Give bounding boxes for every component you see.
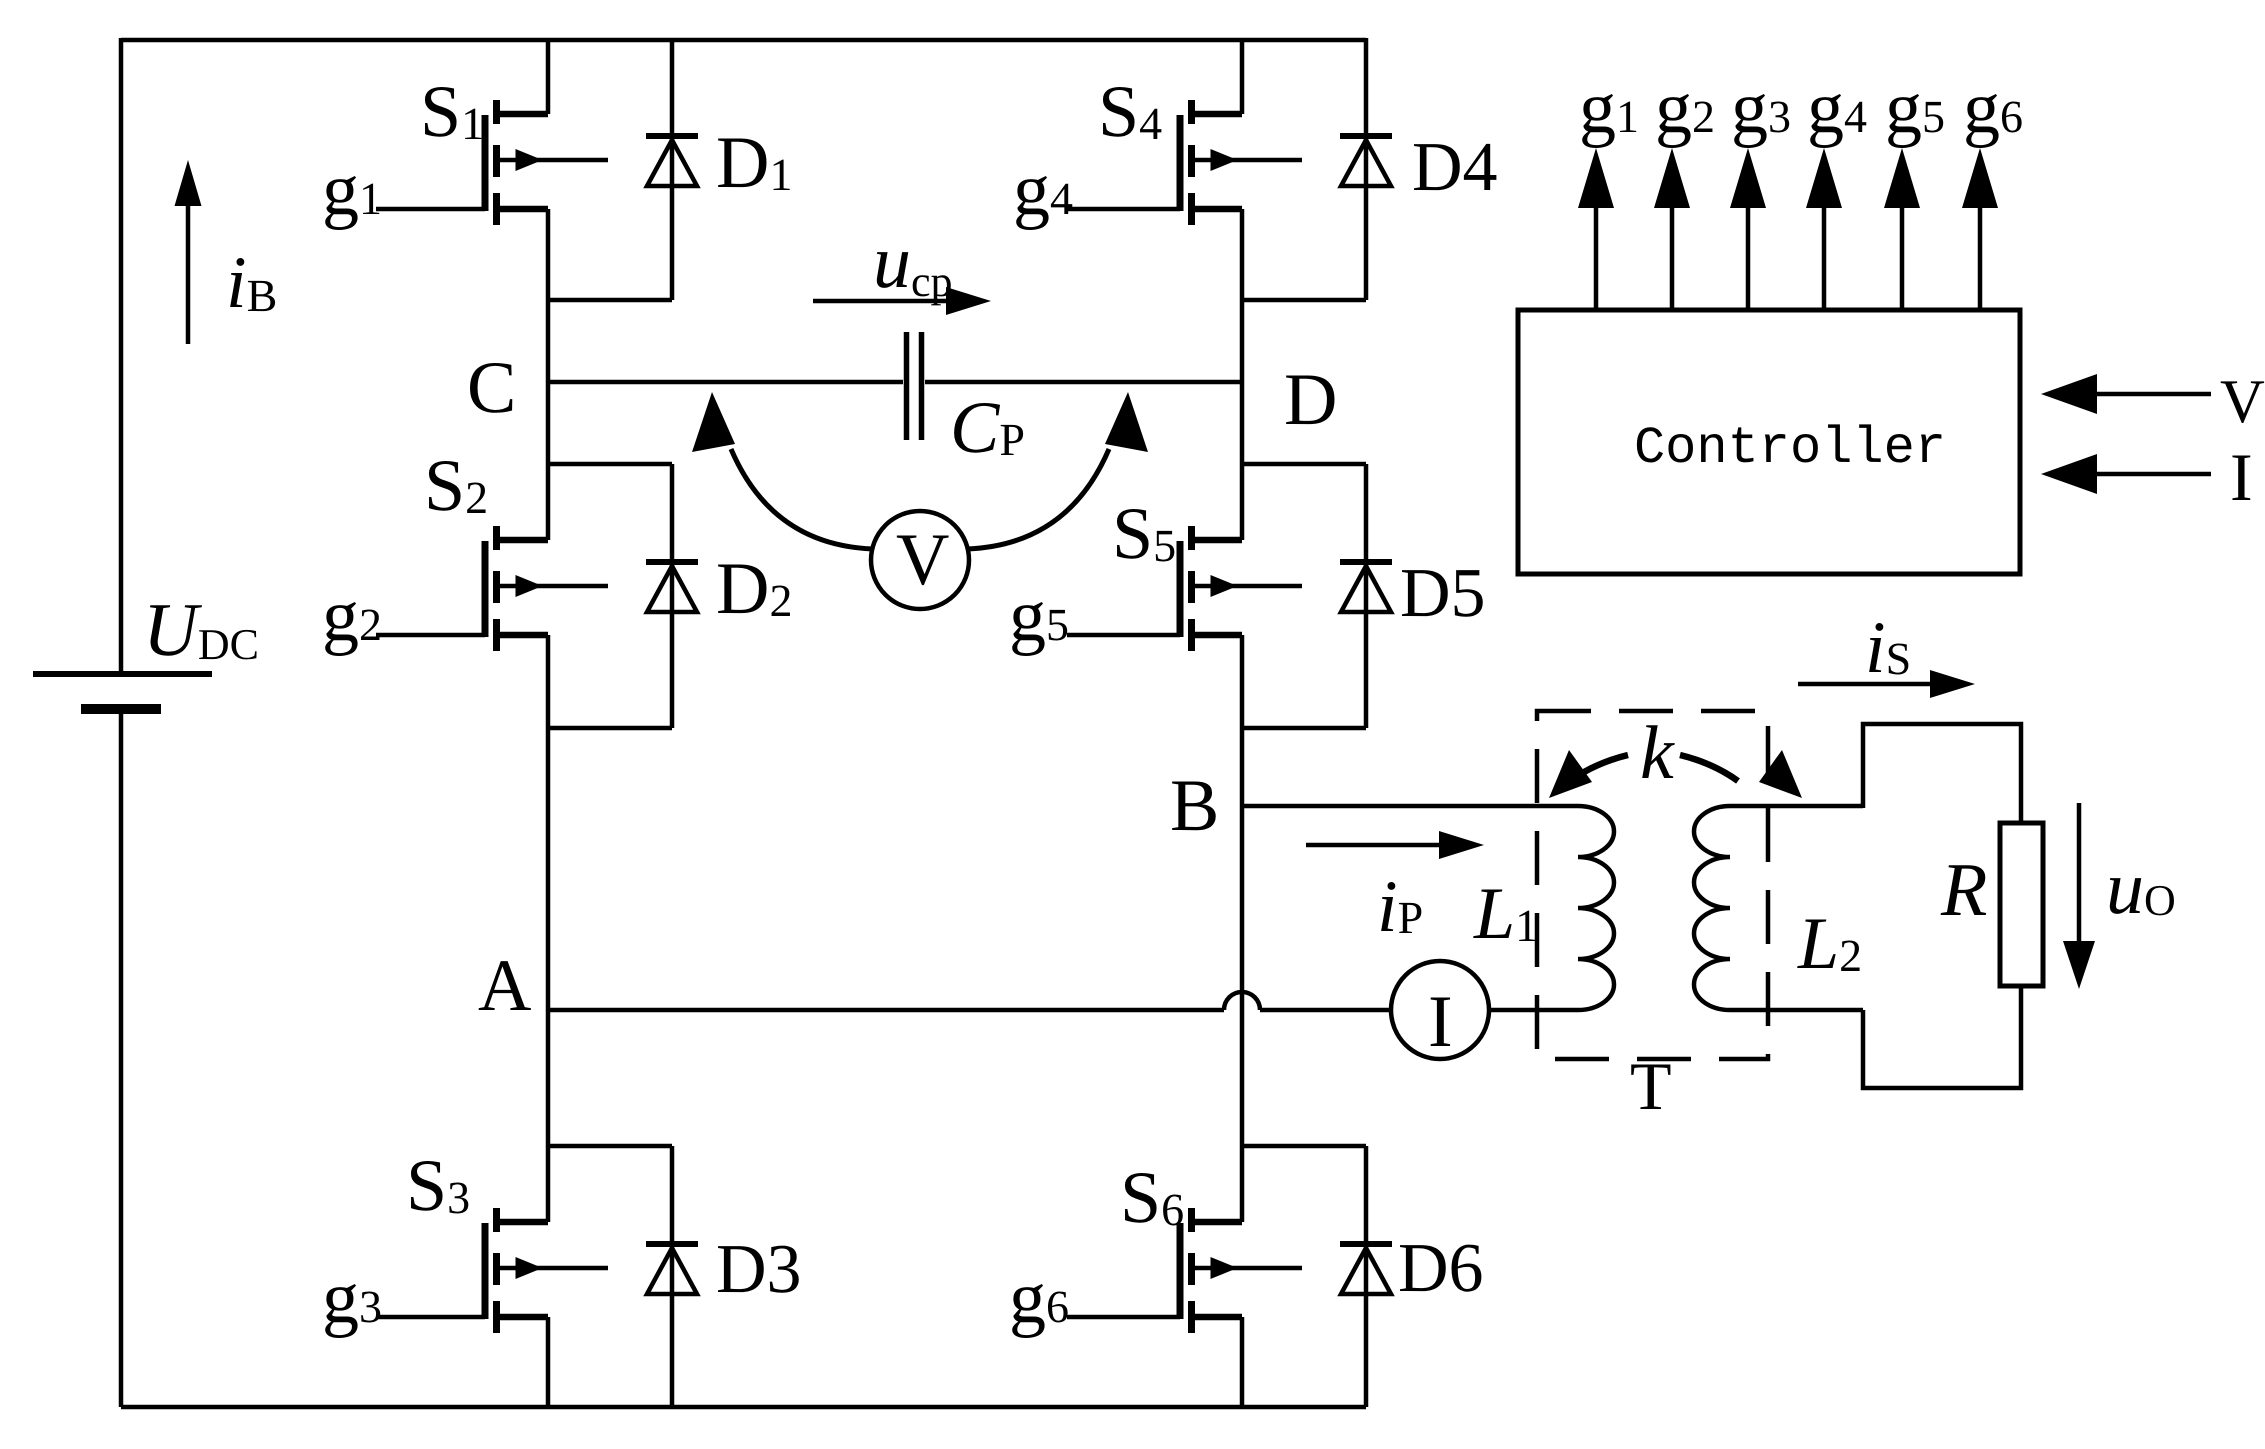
diode D2 xyxy=(670,464,675,728)
svg-text:C: C xyxy=(467,347,516,429)
arrow u_cp xyxy=(813,299,948,304)
voltmeter V xyxy=(871,511,969,609)
wire right leg: S6 source to bottom rail xyxy=(1240,1317,1245,1407)
svg-text:D3: D3 xyxy=(716,1231,802,1308)
svg-text:D4: D4 xyxy=(1412,129,1498,206)
wire top rail (+) xyxy=(121,38,1366,43)
arrow gate signal g3 xyxy=(1746,208,1751,310)
diode D5 xyxy=(1364,464,1369,728)
arrow V input xyxy=(2097,392,2211,397)
resistor R xyxy=(2000,823,2043,986)
arrow gate signal g6 xyxy=(1978,208,1983,310)
svg-text:R: R xyxy=(1940,848,1987,932)
svg-text:V: V xyxy=(2220,368,2265,436)
diode D3 xyxy=(670,1146,675,1407)
transistor S3 xyxy=(482,1223,489,1319)
arrow gate signal g5 xyxy=(1900,208,1905,310)
wire left leg: S3 source to bottom rail xyxy=(546,1317,551,1407)
transistor S5 xyxy=(1177,541,1184,637)
battery U_DC plate long xyxy=(33,671,212,677)
inductor L2 xyxy=(1694,806,1730,1010)
arrow i_B xyxy=(186,205,191,344)
svg-text:T: T xyxy=(1630,1048,1672,1124)
coupling k arrows xyxy=(1570,755,1628,781)
battery U_DC plate short xyxy=(81,704,161,714)
arrow I input xyxy=(2097,472,2211,477)
wire node C to capacitor xyxy=(548,380,903,385)
transistor S4 xyxy=(1177,115,1184,211)
svg-text:D5: D5 xyxy=(1400,555,1486,632)
wire D5 cathode to leg xyxy=(1242,462,1366,467)
svg-text:B: B xyxy=(1170,765,1219,847)
arc V right xyxy=(967,449,1109,549)
diode D6 xyxy=(1364,1146,1369,1407)
arrow u_O xyxy=(2077,803,2082,945)
wire left leg: node A to S3 drain xyxy=(546,1010,551,1222)
inductor L1 xyxy=(1578,806,1614,1010)
svg-text:I: I xyxy=(2230,439,2253,515)
arrow i_S xyxy=(1798,682,1932,687)
wire left leg: S1 source to S2 drain (node C) xyxy=(546,209,551,540)
svg-text:Controller: Controller xyxy=(1634,419,1946,478)
wire hop over right leg xyxy=(1224,992,1260,1010)
wire D2 anode to leg xyxy=(548,726,672,731)
wire right leg: S4 source to S5 drain (node D) xyxy=(1240,209,1245,540)
wire secondary top xyxy=(1863,724,2021,823)
transistor S1 xyxy=(482,115,489,211)
controller box xyxy=(1518,310,2020,574)
wire left rail upper xyxy=(119,38,124,671)
svg-text:D: D xyxy=(1284,359,1337,441)
svg-text:k: k xyxy=(1640,711,1675,795)
wire D3 cathode to leg xyxy=(548,1144,672,1149)
arrow gate signal g2 xyxy=(1670,208,1675,310)
capacitor CP plates xyxy=(904,332,910,440)
wire D4 anode to leg xyxy=(1242,298,1366,303)
arrow gate signal g4 xyxy=(1822,208,1827,310)
wire L2 top lead xyxy=(1730,804,1863,809)
wire D2 cathode to leg xyxy=(548,462,672,467)
arrow gate signal g1 xyxy=(1594,208,1599,310)
wire hop to ammeter xyxy=(1260,1008,1393,1013)
diode D1 xyxy=(670,38,675,300)
wire left rail lower xyxy=(119,712,124,1407)
transformer T dashed box xyxy=(1537,711,1768,1059)
wire D5 anode to leg xyxy=(1242,726,1366,731)
wire capacitor to node D xyxy=(925,380,1242,385)
wire D1 anode to leg xyxy=(548,298,672,303)
wire ammeter to L1 xyxy=(1489,1008,1578,1013)
wire left leg: rail to S1 drain xyxy=(546,40,551,114)
wire secondary bottom xyxy=(1863,986,2021,1088)
wire left leg: S2 source to node A xyxy=(546,635,551,1010)
arrow i_P xyxy=(1306,843,1440,848)
wire node B to L1 xyxy=(1242,804,1578,809)
svg-text:V: V xyxy=(896,519,949,601)
diode D4 xyxy=(1364,38,1369,300)
wire right leg: S5 source through node B to S6 drain xyxy=(1240,635,1245,1222)
wire right leg: rail to S4 drain xyxy=(1240,40,1245,114)
transistor S2 xyxy=(482,541,489,637)
wire bottom rail (-) xyxy=(121,1405,1366,1410)
wire node A to hop xyxy=(548,1008,1224,1013)
svg-text:D6: D6 xyxy=(1398,1230,1484,1307)
svg-text:I: I xyxy=(1428,981,1453,1063)
svg-text:A: A xyxy=(478,945,531,1027)
wire L2 bottom lead xyxy=(1730,1008,1863,1013)
ammeter I xyxy=(1391,961,1489,1059)
transistor S6 xyxy=(1177,1223,1184,1319)
wire D6 cathode to leg xyxy=(1242,1144,1366,1149)
arc V left xyxy=(731,449,873,549)
